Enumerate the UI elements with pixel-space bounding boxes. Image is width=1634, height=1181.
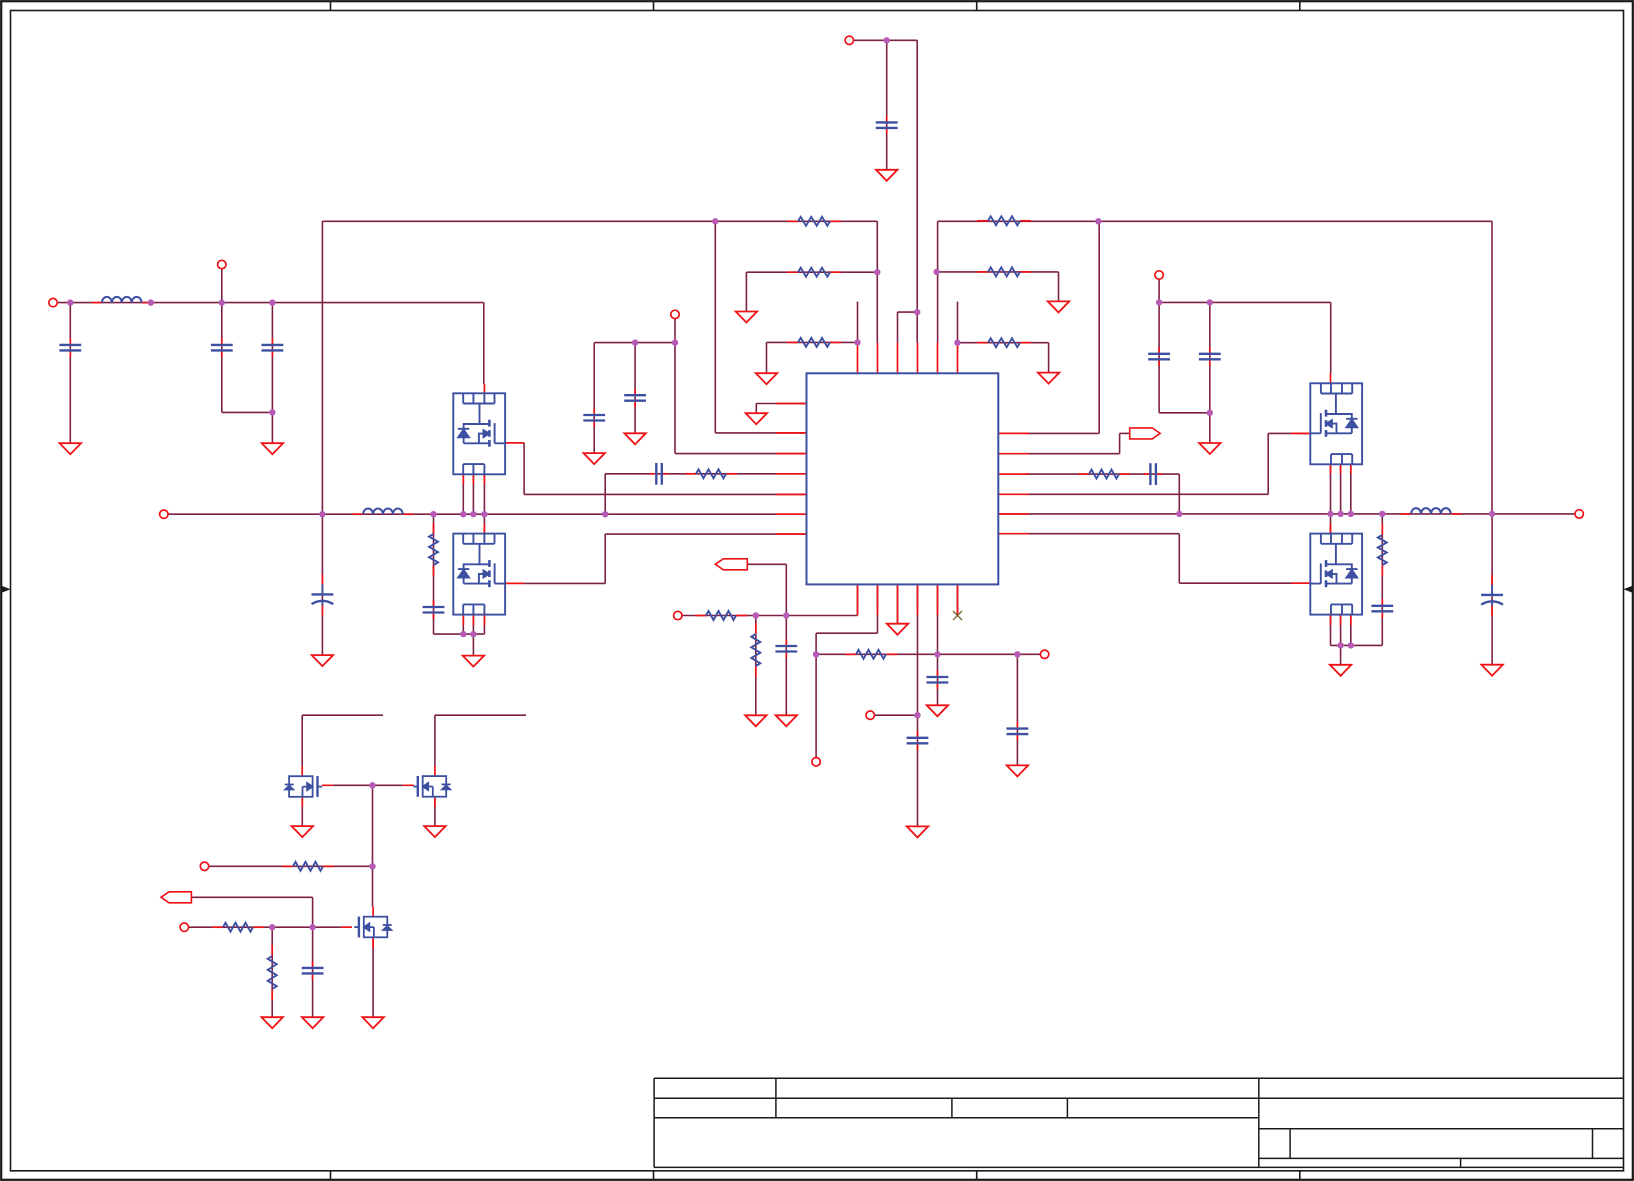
- transistor Q2 dual MOSFET package left bottom: [453, 534, 505, 615]
- port RT: [1040, 650, 1048, 658]
- wire VOUT-L sense vertical: [321, 221, 323, 514]
- wire port to VCC rail: [674, 314, 676, 342]
- wire gate tie: [333, 784, 403, 786]
- wire C1 branch: [69, 303, 71, 444]
- Q1 Q2 Q3 Q4 pin stubs: [302, 373, 1351, 948]
- wire R5 to ground: [1058, 272, 1060, 302]
- ground: [887, 624, 908, 635]
- wire R2 to ground: [745, 272, 747, 311]
- wire Q3 source c: [1350, 464, 1352, 514]
- wire Q1 gate drop: [523, 443, 525, 495]
- wire port right: [1158, 275, 1160, 302]
- resistor R9: [845, 650, 897, 659]
- wire Q4 source rail: [1331, 644, 1383, 646]
- wire U1 bottom pin1: [857, 584, 859, 615]
- frame zone tick bottom: [653, 1171, 655, 1180]
- junction: [934, 651, 940, 657]
- wire boot RC right: [1026, 473, 1179, 475]
- capacitor C13: [927, 671, 949, 690]
- ground: [424, 826, 445, 837]
- wire C11 branch: [785, 564, 787, 715]
- resistor R7: [685, 469, 737, 478]
- junction: [1337, 642, 1343, 648]
- wire Q5 source: [301, 797, 303, 826]
- ground: [362, 1017, 383, 1028]
- no-connect X: [953, 611, 962, 620]
- wire U1 pin3: [675, 453, 807, 455]
- wire RT row: [816, 653, 1045, 655]
- wire U1 top pin3 jog: [897, 312, 899, 343]
- wire VCC rail left: [594, 342, 675, 344]
- transistor Q1 dual MOSFET package left top: [453, 393, 505, 474]
- wire jog to center: [898, 311, 918, 313]
- title block: [654, 1078, 1623, 1167]
- wire U1 bottom pin5: [937, 584, 939, 705]
- ground: [907, 826, 928, 837]
- wire Q3 source a: [1330, 464, 1332, 514]
- resistor R15: [751, 623, 760, 677]
- ground: [624, 433, 645, 444]
- frame zone tick top: [976, 1, 978, 11]
- inductor L1: [91, 297, 152, 303]
- ground: [584, 453, 605, 464]
- capacitor C5: [583, 409, 605, 428]
- wire Q4 source c: [1350, 615, 1352, 645]
- wire label drop: [312, 897, 314, 927]
- junction: [430, 511, 436, 517]
- junction: [954, 340, 960, 346]
- resistor R1: [787, 217, 841, 226]
- capacitor C4: [876, 116, 898, 134]
- wire C15 branch: [312, 927, 314, 1017]
- capacitor C2: [211, 338, 233, 357]
- junction: [1489, 511, 1495, 517]
- wire port to VIN rail: [221, 265, 223, 303]
- junction: [1207, 410, 1213, 416]
- wire U1 right pin2: [1026, 453, 1120, 455]
- junction: [783, 612, 789, 618]
- wire R13 branch: [271, 927, 273, 1017]
- wire Q4 drain: [1330, 514, 1332, 534]
- junction: [460, 631, 466, 637]
- IC U1: [807, 373, 999, 584]
- resistor R11: [282, 862, 334, 871]
- U1 pin stubs: [776, 343, 1029, 624]
- wire to U1 right pin1: [1098, 221, 1100, 434]
- junction: [933, 269, 939, 275]
- wire Q6 drain: [434, 715, 436, 766]
- wire C10 branch: [1209, 302, 1211, 443]
- ground: [1199, 443, 1220, 454]
- capacitor C18 boot left: [650, 463, 669, 485]
- port: [866, 711, 874, 719]
- wire stub b: [435, 714, 526, 716]
- wire gate down: [372, 785, 374, 866]
- frame zone tick top: [1299, 1, 1301, 11]
- capacitor C1: [59, 338, 81, 357]
- net label SYNC: [1130, 428, 1161, 439]
- wire VIN rail: [53, 302, 484, 304]
- wire Q2 source c: [483, 615, 485, 634]
- junction: [712, 218, 718, 224]
- wire Q2 source to ground: [472, 634, 474, 656]
- capacitor C6: [624, 389, 646, 408]
- net label EN: [715, 559, 747, 570]
- port: [218, 260, 226, 268]
- ground: [1330, 665, 1351, 676]
- junction: [1348, 511, 1354, 517]
- wire SW node right: [998, 513, 1579, 515]
- ground: [745, 715, 766, 726]
- junction: [1176, 511, 1182, 517]
- capacitor C8 output right: [1481, 575, 1503, 616]
- frame zone tick bottom: [976, 1171, 978, 1180]
- resistor R3: [787, 338, 841, 347]
- junction: [1337, 511, 1343, 517]
- wire C8 output branch: [1491, 514, 1493, 665]
- wire top port: [849, 39, 917, 41]
- wire C7 output branch: [321, 514, 323, 655]
- wire Q4 source b: [1340, 615, 1342, 645]
- capacitor C3: [262, 338, 284, 357]
- junction: [914, 712, 920, 718]
- wire Q4 gate row: [1179, 582, 1310, 584]
- wire FB rail right: [938, 220, 1492, 222]
- capacitor C19 boot right: [1144, 463, 1163, 485]
- wire boot RC left: [605, 473, 806, 475]
- transistor Q4 dual MOSFET package right bottom: [1310, 534, 1362, 615]
- wire stub a: [302, 714, 383, 716]
- wire U1 pin1: [756, 403, 806, 405]
- junction: [854, 339, 860, 345]
- wire U1 bottom pin2: [877, 584, 879, 633]
- wire label row2: [191, 896, 312, 898]
- ground: [302, 1017, 323, 1028]
- wire SW node left: [164, 513, 807, 515]
- resistor R14 snubber: [1378, 524, 1387, 576]
- port VIN right: [1155, 271, 1163, 279]
- wire HV rail right: [1159, 301, 1331, 303]
- wire U1 right pin1: [1026, 432, 1099, 434]
- ground: [463, 656, 484, 667]
- resistor R10: [695, 611, 747, 620]
- junction: [269, 299, 275, 305]
- wire Q5 drain: [301, 715, 303, 766]
- resistor R12: [212, 923, 264, 932]
- port VCC top: [845, 36, 853, 44]
- ground: [1048, 301, 1069, 312]
- wire U1 right pin4 gate upper: [1026, 493, 1268, 495]
- wire Q6 source: [434, 797, 436, 827]
- junction: [602, 511, 608, 517]
- junction: [1348, 642, 1354, 648]
- frame centre arrow right: [1624, 586, 1634, 593]
- wire Q2 source rail: [434, 633, 485, 635]
- port VOUT left: [160, 510, 168, 518]
- junction: [1379, 511, 1385, 517]
- wire U1 bottom pin3 gnd: [897, 584, 899, 623]
- junction: [874, 269, 880, 275]
- junction: [1014, 651, 1020, 657]
- ground: [756, 373, 777, 384]
- ground: [776, 715, 797, 726]
- wire C9 bottom: [1159, 412, 1210, 414]
- ground: [60, 443, 81, 454]
- capacitor C7 output left: [312, 574, 334, 615]
- wire RC to SW right: [1178, 474, 1180, 514]
- ground: [1007, 765, 1028, 776]
- wire C9 branch: [1158, 302, 1160, 412]
- wire gate lower drop: [604, 534, 606, 583]
- wire U1 pin5 gate upper left: [524, 493, 806, 495]
- junction: [1207, 299, 1213, 305]
- ground: [262, 1017, 283, 1028]
- inductor L2: [353, 508, 414, 514]
- resistor R8: [1078, 470, 1130, 479]
- transistor Q7 small MOSFET: [354, 917, 391, 938]
- junction: [632, 339, 638, 345]
- capacitor C15: [302, 961, 324, 980]
- transistor Q5 small MOSFET: [285, 776, 322, 797]
- junction: [470, 511, 476, 517]
- capacitor C14: [1007, 722, 1029, 741]
- resistor R16: [268, 945, 277, 1000]
- junction: [672, 339, 678, 345]
- resistor R5: [977, 267, 1031, 276]
- wire to Q7 drain: [372, 866, 374, 906]
- wire Q2 gate row: [524, 582, 605, 584]
- wire VCC to U1 pin3: [674, 343, 676, 454]
- junction: [309, 924, 315, 930]
- capacitor C9: [1148, 347, 1170, 366]
- wire U1 right pin6 gate lower: [1026, 533, 1179, 535]
- junction: [319, 511, 325, 517]
- wire to port: [815, 633, 817, 762]
- resistor R2: [787, 268, 841, 277]
- ground: [927, 705, 948, 716]
- ground: [1038, 373, 1059, 384]
- wire center vertical to U1: [916, 40, 918, 342]
- wire label row: [747, 563, 786, 565]
- wire RC to SW left: [604, 474, 606, 514]
- port: [812, 758, 820, 766]
- wire comp row: [678, 615, 858, 617]
- wire R3 row left: [767, 341, 858, 343]
- wire Q3 gate row: [1268, 432, 1310, 434]
- port COMP: [674, 611, 682, 619]
- wire HV to Q3 drain: [1330, 302, 1332, 374]
- junction: [914, 309, 920, 315]
- junction: [269, 409, 275, 415]
- wire Q3 gate rise: [1267, 433, 1269, 494]
- wire U1 bottom pin6 nc: [957, 584, 959, 615]
- wire R6 to ground: [1048, 343, 1050, 373]
- wire R2 row left: [746, 271, 877, 273]
- wire Q2 source b: [472, 615, 474, 634]
- junction: [884, 37, 890, 43]
- wire C2 branch: [221, 303, 223, 413]
- ground: [312, 655, 333, 666]
- ground: [746, 413, 767, 424]
- port: [180, 923, 188, 931]
- frame zone tick top: [653, 1, 655, 11]
- transistor Q3 dual MOSFET package right top: [1310, 383, 1362, 464]
- frame centre arrow left: [1, 586, 11, 593]
- wire divider right: [937, 221, 939, 342]
- frame zone tick bottom: [330, 1171, 332, 1180]
- transistor Q6 small MOSFET: [413, 776, 450, 797]
- wire to label: [1119, 433, 1121, 453]
- wire C3 branch: [271, 303, 273, 444]
- capacitor C11: [775, 640, 797, 659]
- wire pin2 jog: [816, 632, 877, 634]
- wire R5 row right: [937, 271, 1059, 273]
- junction: [369, 782, 375, 788]
- wire U1 pin7 gate lower left: [605, 533, 806, 535]
- wire port row: [870, 714, 917, 716]
- junction: [67, 299, 73, 305]
- inductor L3: [1401, 508, 1462, 514]
- ground: [292, 826, 313, 837]
- wire C14 branch: [1016, 654, 1018, 765]
- port VIN left: [49, 298, 57, 306]
- junction: [470, 631, 476, 637]
- wire Q7 source: [372, 938, 374, 1017]
- wire snubber left: [433, 514, 435, 634]
- junction: [1327, 511, 1333, 517]
- wire R6 row right: [958, 342, 1049, 344]
- ground: [1481, 665, 1502, 676]
- wire Q4 source to ground: [1340, 645, 1342, 664]
- wire FB rail left: [322, 220, 877, 222]
- wire label stub: [1120, 432, 1130, 434]
- wire divider left: [876, 221, 878, 342]
- ground: [736, 312, 757, 323]
- wire pin1 to ground: [755, 404, 757, 414]
- wire C5 branch: [593, 343, 595, 454]
- wire C6 branch: [634, 343, 636, 434]
- junction: [1095, 218, 1101, 224]
- junction: [460, 511, 466, 517]
- resistor R6: [977, 338, 1031, 347]
- junction: [219, 299, 225, 305]
- wire U1 bottom pin4: [917, 584, 919, 826]
- junction: [753, 612, 759, 618]
- wire R12 row: [184, 926, 352, 928]
- junction: [369, 863, 375, 869]
- port: [671, 310, 679, 318]
- port: [200, 862, 208, 870]
- net label PG: [161, 892, 191, 903]
- junction: [1156, 299, 1162, 305]
- frame zone tick top: [330, 1, 332, 11]
- junction: [269, 924, 275, 930]
- wire R11 row: [205, 865, 373, 867]
- wire Q2 source a: [462, 615, 464, 634]
- wire Q1 source a: [462, 474, 464, 514]
- wire U1 pin2: [715, 432, 806, 434]
- junction: [148, 299, 154, 305]
- resistor R4: [977, 216, 1031, 225]
- capacitor C10: [1199, 347, 1221, 366]
- wire VIN to Q1 drain: [483, 303, 485, 384]
- wire R10 branch: [755, 616, 757, 716]
- resistor R13 snubber: [429, 523, 438, 576]
- wire C4 branch: [886, 40, 888, 170]
- wire VOUT-R sense vertical: [1491, 221, 1493, 514]
- junction: [813, 651, 819, 657]
- wire snubber right: [1381, 514, 1383, 646]
- frame zone tick bottom: [1299, 1171, 1301, 1180]
- wire Q2 drain: [483, 514, 485, 533]
- wire R3 to ground: [766, 342, 768, 373]
- wire Q1 source c: [483, 474, 485, 514]
- wire Q4 source a: [1330, 615, 1332, 645]
- wire stub above U1 pin: [857, 302, 859, 343]
- wire gate lower drop right: [1178, 534, 1180, 584]
- wire to U1 pin2: [714, 221, 716, 433]
- ground: [262, 443, 283, 454]
- capacitor C17 snubber: [1371, 599, 1393, 618]
- capacitor C16 snubber: [423, 601, 445, 620]
- capacitor C12: [907, 731, 929, 750]
- junction: [481, 511, 487, 517]
- wire Q3 source b: [1340, 464, 1342, 514]
- wire C2 bottom: [222, 411, 273, 413]
- wire Q1 source b: [472, 474, 474, 514]
- ground: [876, 170, 897, 181]
- port VOUT right: [1575, 510, 1583, 518]
- wire stub above U1 pin: [957, 302, 959, 343]
